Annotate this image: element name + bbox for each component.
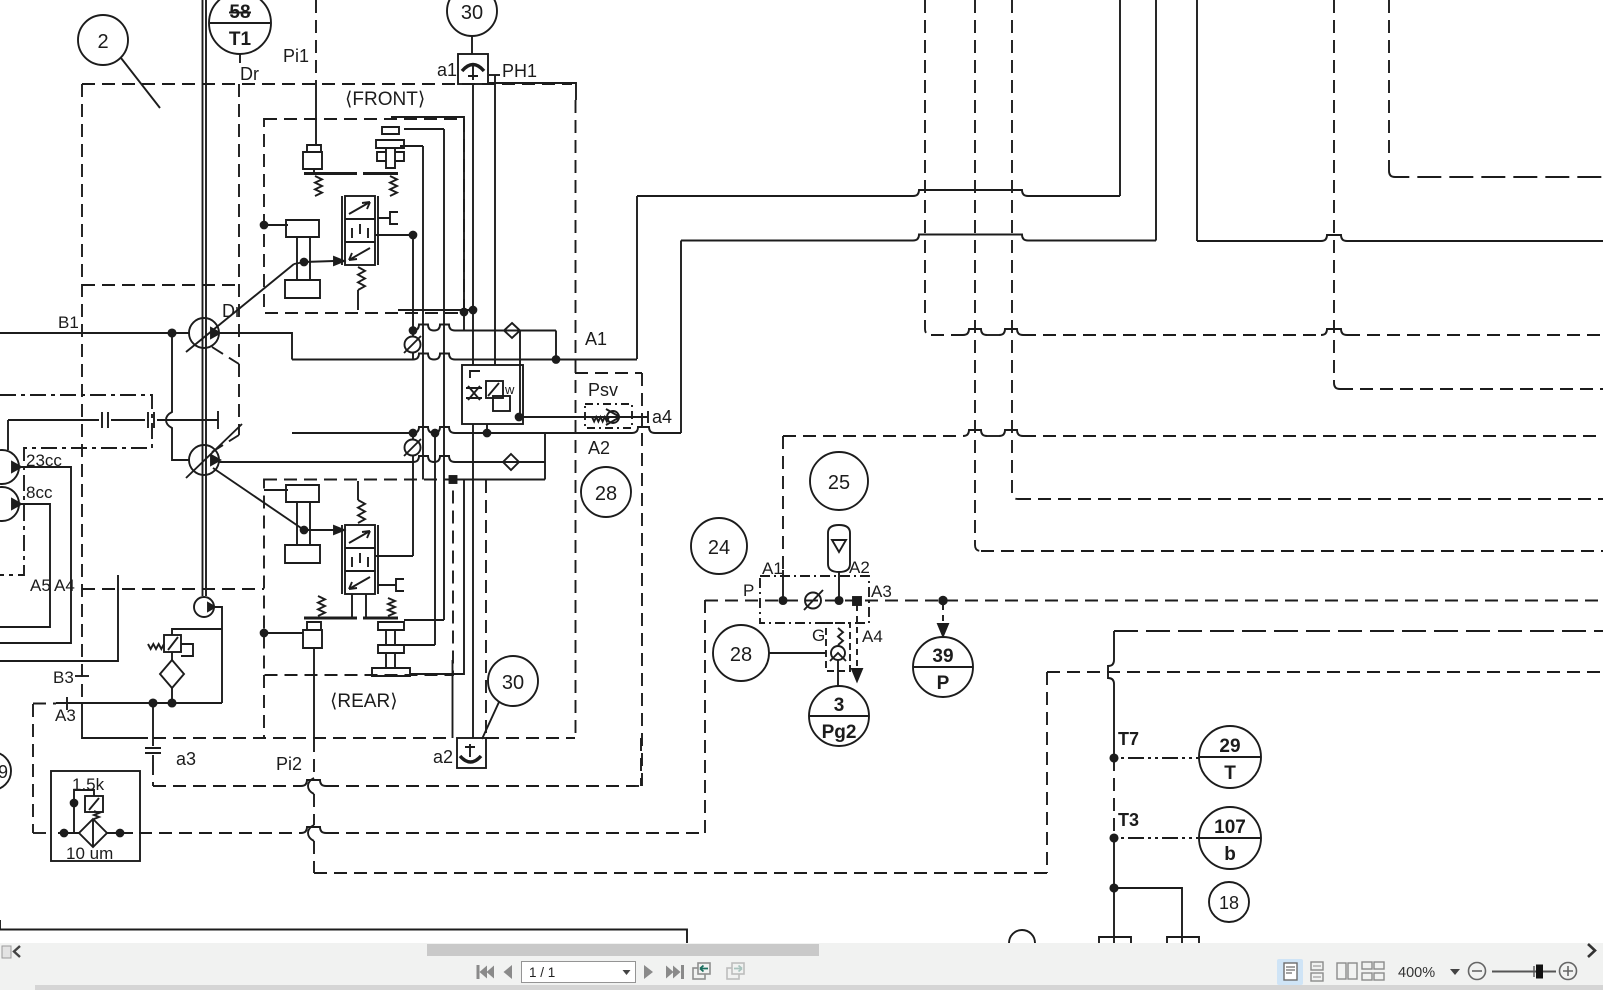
reg pilot valve 1 — [486, 381, 503, 398]
accumulator body — [828, 525, 850, 572]
scrollbar right arrow — [1588, 944, 1595, 957]
node check F2 top — [410, 430, 417, 437]
wire dashed pump-group box top edge — [82, 83, 572, 85]
pump P1 outlet arrow — [211, 328, 220, 338]
wire tank branch to cylinder — [1114, 888, 1182, 943]
wire riser x435 — [434, 433, 436, 645]
check valve F1 circle — [405, 337, 421, 353]
zoom out icon — [1469, 963, 1486, 980]
check valve F2 seat — [404, 439, 421, 456]
wire 39P dashed drop — [942, 604, 944, 624]
wire dashed a2 drop x486 — [485, 480, 487, 738]
zoom in icon — [1560, 963, 1577, 980]
valve spool F dividers — [345, 219, 375, 242]
node spool pilot F — [410, 232, 417, 239]
accumulator triangle — [832, 540, 846, 552]
wire shaft to P1 — [7, 420, 9, 450]
gauge box a2 — [457, 738, 486, 768]
valve spool F rails — [342, 196, 378, 265]
previous-view icon — [693, 963, 710, 979]
svg-text:T: T — [1224, 763, 1236, 784]
wire A4 dashed drop — [856, 605, 858, 668]
wire rail y310 — [398, 309, 475, 311]
balloon circle 107/b — [1199, 807, 1261, 869]
wire spool F to rail — [357, 290, 359, 310]
node check F1 top — [410, 327, 417, 334]
wire Pi2 line solid — [313, 648, 315, 739]
node A2 port — [835, 597, 842, 604]
wire dashed riser x1389 — [1388, 0, 1390, 171]
orifice diamond top — [504, 323, 520, 338]
svg-text:3: 3 — [834, 695, 845, 716]
wire Psv line — [523, 416, 648, 418]
servo piston R (double-T) — [285, 485, 320, 563]
wire dashed tank lateral y833 left — [33, 832, 53, 834]
wire A2 trunk (y240) — [681, 235, 1156, 241]
svg-text:24: 24 — [708, 537, 730, 559]
node junction a3 — [149, 699, 156, 706]
relief valve arrow — [168, 637, 178, 650]
node feedback R — [301, 527, 308, 534]
svg-text:P: P — [743, 581, 754, 600]
wire riser x520 — [519, 331, 521, 418]
filter diamond (pilot) — [79, 819, 107, 847]
check valve acc circle — [805, 593, 821, 609]
swash dashed diag P1 — [212, 347, 239, 364]
wire dashed PH1 riser x575 — [489, 83, 576, 100]
wire 8cc outlet L-path — [0, 504, 50, 627]
wire pump P1 outlet — [219, 333, 292, 360]
wire filter left node — [61, 830, 68, 837]
valve spool R dividers — [345, 548, 375, 571]
wire dashed lateral y335 — [931, 329, 1603, 335]
wire rear pilot out2 — [404, 644, 435, 646]
svg-text:A1: A1 — [762, 559, 783, 578]
wire filter to A3 line — [171, 688, 173, 703]
svg-text:23cc: 23cc — [26, 451, 62, 470]
balloon circle 18 — [1209, 882, 1249, 922]
solenoid Pi2 (rear) body — [303, 622, 322, 648]
solenoid Pi1 (front) body — [303, 145, 322, 169]
wire dashed a3 lateral y786 — [153, 780, 641, 786]
wire servo F left stub — [264, 224, 288, 226]
layout icon continuous — [1311, 962, 1323, 981]
wire a3 drop — [152, 703, 154, 746]
svg-text:⟨REAR⟩: ⟨REAR⟩ — [330, 691, 398, 712]
wire B1 line — [0, 332, 190, 334]
wire Pi1 pilot line (solid segment) — [315, 84, 317, 145]
valve spool F body — [345, 196, 375, 265]
page number box — [522, 962, 636, 983]
tank port symbol left — [1099, 937, 1131, 943]
wire A1 trunk drop x637 — [636, 196, 638, 359]
wire tank T3 down solid — [1113, 838, 1115, 943]
sheet border bottom — [0, 920, 687, 943]
wire spool R stems — [352, 594, 366, 618]
G check ball — [831, 646, 845, 660]
wire dashed lateral y499 — [1018, 498, 1603, 500]
pump P2 outlet arrow — [211, 455, 220, 465]
pilot check manifold dash-dot box — [760, 576, 869, 623]
valve spool R center sym — [352, 553, 368, 567]
svg-text:9: 9 — [0, 762, 8, 782]
svg-text:A3: A3 — [871, 582, 892, 601]
balloon circle 28 right — [713, 625, 769, 681]
gauge a1 arc — [462, 65, 484, 72]
wire filter connections — [58, 832, 133, 834]
wire long-dash lateral y631 — [1114, 630, 1603, 632]
wire dashed PH1 drop to Psv region — [575, 100, 577, 738]
spring F below spool — [358, 267, 365, 290]
valve spool R rails — [342, 525, 378, 594]
pump charge circle 23cc — [0, 450, 19, 484]
balloon circle 24 — [691, 518, 747, 574]
wire pilot F out2 — [404, 128, 444, 130]
svg-text:Psv: Psv — [588, 380, 618, 400]
wire dashed drop x705 — [704, 600, 706, 833]
pilot relief arrow — [89, 798, 99, 810]
wire Pi2 line dashed seg2 — [313, 794, 315, 825]
wire rail y330 — [413, 325, 556, 331]
G check seat — [830, 653, 846, 661]
wire accumulator drop — [838, 572, 840, 600]
svg-text:Pi2: Pi2 — [276, 754, 302, 774]
reg pilot valve 1 arrow — [488, 383, 499, 396]
mech coupling bars 2 — [148, 412, 154, 428]
node junction filter — [168, 699, 175, 706]
svg-text:a2: a2 — [433, 747, 453, 767]
wire spool R to dashed top — [357, 481, 359, 500]
relief valve pilot hook — [181, 644, 193, 656]
svg-text:a3: a3 — [176, 749, 196, 769]
wire solenoid to plate F — [313, 169, 315, 172]
wire balloon2 leader — [121, 58, 160, 108]
svg-text:A2: A2 — [849, 558, 870, 577]
balloon circle 2 — [78, 15, 128, 65]
wire dashed REAR box drop left — [263, 675, 265, 738]
pump P2 (rear) circle — [189, 445, 219, 475]
node rear drain — [261, 630, 268, 637]
pilot piston R (double-T) — [372, 622, 410, 676]
node junction T3 — [1110, 834, 1117, 841]
valve spool F arrow bottom — [349, 248, 370, 260]
wire balloon28 leader — [769, 652, 826, 654]
wire pilot F out3 — [400, 145, 423, 147]
wire feedback diagonal P2 — [213, 468, 304, 530]
regulator pilot box — [462, 365, 523, 424]
wire dashed lateral y551 — [981, 550, 1603, 552]
wire dashed a3 drop x153 — [152, 762, 154, 786]
svg-text:B1: B1 — [58, 313, 79, 332]
balloon 3/Pg2 divider — [809, 715, 869, 717]
node a1 drop junction — [470, 307, 477, 314]
pump P1 displacement arrow — [186, 264, 294, 352]
svg-text:A2: A2 — [588, 438, 610, 458]
Psv check spring — [592, 417, 609, 422]
node junction T3-branch — [1110, 884, 1117, 891]
spring R right — [388, 598, 395, 616]
port tick A3 — [66, 697, 68, 710]
pump P2 displacement arrow — [186, 424, 242, 478]
wire Pi2 hop1 — [308, 778, 314, 794]
pump charge 8cc arrow — [12, 499, 21, 509]
relief valve body — [164, 635, 181, 652]
node riser x435 tee — [432, 430, 439, 437]
wire rear block drain — [264, 632, 303, 634]
wire dashed lateral y389 — [1340, 388, 1603, 390]
wire riser x556 drop — [555, 331, 557, 360]
next-view icon (disabled) — [727, 963, 744, 979]
svg-text:10 um: 10 um — [66, 844, 113, 863]
svg-text:18: 18 — [1219, 893, 1239, 913]
pump charge 23cc arrow — [12, 462, 21, 472]
balloon 58/T1 divider — [210, 22, 270, 24]
pilot relief body — [85, 796, 103, 812]
node Psv tap — [516, 414, 523, 421]
wire PH1 drop — [494, 75, 496, 365]
servo piston F (double-T) — [285, 220, 320, 298]
balloon circle 30 rear — [488, 656, 538, 706]
balloon circle 58/T1 — [209, 0, 271, 54]
wire dashed pilot main y600 — [705, 600, 1603, 602]
nav prev icon — [504, 965, 513, 979]
wire dashed A3 stub — [33, 703, 56, 705]
wire G check drop — [837, 660, 839, 686]
balloon 107/b divider — [1199, 837, 1261, 839]
wire spool pilot F — [375, 235, 413, 331]
wire T7 lateral dash-dot-dot — [1114, 757, 1199, 759]
balloon circle cut (bottom) — [1009, 930, 1035, 943]
Psv check seat — [606, 409, 620, 425]
wire dashed Psv top edge — [575, 372, 642, 374]
node pilot main tap — [939, 597, 947, 605]
pilot filter enclosure box — [51, 771, 140, 861]
filter element line — [92, 819, 94, 847]
svg-text:A4: A4 — [54, 576, 75, 595]
svg-text:25: 25 — [828, 472, 850, 494]
nav next icon — [644, 965, 653, 979]
layout icon single-page (selected) — [1277, 959, 1303, 985]
svg-text:A3: A3 — [55, 706, 76, 725]
wire dashed lateral y873 — [314, 872, 1047, 874]
G-pipe R — [378, 579, 404, 591]
wire rail y433 (A2) — [292, 427, 681, 433]
node pilot relief in — [71, 800, 78, 807]
G check dashed box — [826, 623, 850, 671]
pilot relief spring — [94, 811, 99, 819]
scrollbar left arrow — [14, 946, 20, 957]
wire dashed tank lateral y833 right — [139, 827, 705, 833]
wire P trunk (y241) — [1197, 235, 1603, 241]
valve spool F arrow top — [349, 202, 370, 214]
feedback arrowhead R — [334, 526, 344, 534]
wire B1 sense drop — [166, 333, 190, 460]
svg-text:29: 29 — [1219, 736, 1240, 757]
gauge a2 arc — [460, 756, 481, 762]
wire dashed Dr drain line (vertical) — [238, 84, 240, 435]
valve spool F center sym — [352, 224, 368, 238]
wire tank T7-T3 dashed — [1113, 758, 1115, 838]
svg-text:a1: a1 — [437, 60, 457, 80]
wire filter right node — [117, 830, 124, 837]
valve spool R body — [345, 525, 375, 594]
wire dashed lateral y672 — [1047, 671, 1603, 673]
svg-text:Dr: Dr — [240, 64, 259, 84]
wire a1-a2 gauge loop riser — [472, 84, 474, 365]
check valve F2 circle — [405, 440, 421, 456]
wire A1 port drop — [782, 570, 784, 600]
valve spool R arrow top — [349, 531, 370, 543]
port tick a4 — [647, 411, 649, 423]
wire solid a3 branch — [82, 703, 148, 738]
svg-text:A5: A5 — [30, 576, 51, 595]
nav last-page icon — [666, 965, 684, 979]
reg pilot valve 2 — [493, 396, 510, 411]
wire a3 below port — [152, 755, 154, 762]
wire A3 line — [56, 702, 222, 704]
node reg drop — [484, 430, 491, 437]
wire feedback diagonal P1-servo — [294, 262, 304, 264]
wire T3 lateral dash-dot-dot — [1114, 837, 1199, 839]
wire servo R left stub — [264, 489, 288, 491]
balloon circle 25 — [810, 452, 868, 510]
valve spool R arrow bottom — [349, 577, 370, 589]
spring R above spool — [358, 500, 365, 523]
svg-text:b: b — [1224, 844, 1236, 865]
wire dashed riser x1012 — [1012, 0, 1018, 499]
wire rail y359 (A1) — [292, 354, 637, 360]
wire dashed Pi1 pilot line (top) — [315, 0, 317, 84]
wire Pi2 line dashed seg1 — [313, 739, 315, 778]
wire P3 outlet to A3 — [214, 607, 222, 703]
wire dashed Pi2 lateral y738 (left) — [153, 737, 452, 739]
spring F left — [315, 176, 322, 196]
reg pilot drop to A2 — [486, 424, 488, 433]
pilot relief bypass — [74, 790, 94, 803]
gauge a1 stem — [468, 66, 478, 80]
orifice diamond bottom — [503, 454, 519, 470]
svg-text:G: G — [812, 626, 825, 645]
label 9 (partial balloon) — [0, 752, 11, 790]
wire gauge loop lower — [472, 424, 474, 738]
svg-text:PH1: PH1 — [502, 61, 537, 81]
wire rail y478 solid — [453, 479, 545, 481]
check valve F1 seat — [404, 336, 421, 353]
node y478 junction — [450, 476, 457, 483]
pump P3 (pilot) circle — [194, 597, 214, 617]
balloon circle 3/Pg2 — [809, 686, 869, 746]
reg pilot throttle — [466, 386, 482, 400]
wire F out1 to rail — [463, 312, 465, 331]
svg-text:P: P — [937, 673, 950, 694]
layout icon two-page-scroll — [1362, 962, 1384, 980]
wire dashed pump enclosure y285 — [82, 284, 239, 286]
balloon 29/T divider — [1199, 756, 1261, 758]
wire tank corner x1114 — [1108, 631, 1114, 758]
svg-text:T1: T1 — [229, 29, 252, 50]
wire balloon30 leader — [482, 702, 499, 739]
Psv check dash-dot box — [585, 404, 632, 428]
scrollbar thumb — [427, 944, 819, 956]
svg-text:a4: a4 — [652, 407, 672, 427]
wire spool pilot R — [375, 462, 413, 556]
balloon circle 29/T — [1199, 726, 1261, 788]
wire dashed Pi2 lateral y738 (right) — [486, 737, 575, 739]
G check spring — [838, 628, 843, 645]
svg-text:30: 30 — [461, 2, 483, 24]
wire dashed drop x33 — [32, 704, 34, 833]
pump charge circle 8cc — [0, 487, 19, 521]
node F out1 on box edge — [461, 309, 468, 316]
svg-text:T3: T3 — [1118, 810, 1139, 830]
svg-text:400%: 400% — [1398, 965, 1435, 981]
mech shaft line — [8, 419, 218, 421]
scrollbar corner box — [2, 946, 11, 958]
Psv check ball circle — [607, 411, 619, 423]
G-pipe F — [378, 212, 398, 224]
wire Pi2 hop2 — [308, 825, 314, 841]
svg-text:28: 28 — [730, 644, 752, 666]
lever plate R right — [363, 617, 398, 620]
wire long-dash lateral y177 — [1389, 171, 1603, 177]
mechanical linkage dash-dot enclosure — [0, 395, 152, 575]
balloon circle 30 top — [447, 0, 497, 36]
svg-text:28: 28 — [595, 483, 617, 505]
regulator box (FRONT) dashed outline — [264, 119, 464, 313]
pilot piston F (double-T) — [376, 127, 404, 168]
layout icon two-page — [1337, 963, 1357, 979]
toolbar background — [0, 943, 1603, 990]
wire feedback to spool F — [304, 261, 334, 262]
svg-text:1 / 1: 1 / 1 — [529, 965, 555, 980]
wire relief to P3 line — [172, 629, 222, 635]
wire A1 trunk (y196) — [637, 190, 1120, 196]
wire a2 drop solid x452 — [452, 660, 454, 738]
check valve acc seat — [804, 590, 823, 610]
wire rear pilot out1 — [404, 619, 444, 621]
node A1 trunk riser x1120 — [1119, 0, 1121, 196]
bottom edge strip — [35, 985, 1603, 990]
wire dashed drop x1047 — [1046, 672, 1048, 873]
svg-text:Pg2: Pg2 — [822, 722, 857, 743]
reg pilot E-bracket — [470, 371, 480, 378]
wire dashed riser x641 (Psv to a3) — [640, 738, 642, 786]
pump P1 (front) circle — [189, 318, 219, 348]
balloon circle 28 left — [581, 467, 631, 517]
wire pilot relief drop — [73, 803, 75, 833]
wire riser x545 — [544, 433, 546, 480]
nav first-page icon — [477, 965, 495, 979]
svg-text:107: 107 — [1214, 817, 1246, 838]
wire dashed lateral y436 — [783, 430, 1603, 436]
zoom slider — [1492, 971, 1556, 973]
wire feedback to spool R — [304, 529, 334, 531]
node junction B1 — [168, 329, 175, 336]
wire 23cc outlet L-path — [0, 467, 71, 643]
pump drive shaft double line — [203, 0, 207, 596]
svg-text:Pi1: Pi1 — [283, 46, 309, 66]
node A1 port — [779, 597, 786, 604]
wire check F1 riser — [412, 330, 414, 359]
39P arrowhead — [938, 624, 948, 636]
wire A2 trunk drop x681 — [680, 241, 682, 434]
wire riser x444 — [443, 129, 445, 620]
gauge a2 stem — [465, 744, 475, 757]
wire check F2 riser — [412, 433, 414, 462]
node junction x556 — [553, 356, 560, 363]
svg-text:1.5k: 1.5k — [72, 775, 105, 794]
wire dashed riser x925 — [925, 0, 931, 335]
